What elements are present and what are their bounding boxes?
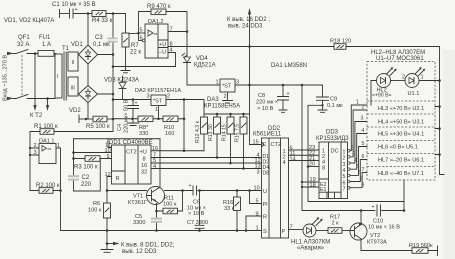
svg-text:15: 15 [253, 140, 259, 146]
svg-text:3: 3 [147, 94, 150, 100]
svg-text:К выв. 8 DD1, DD2;: К выв. 8 DD1, DD2; [121, 243, 175, 249]
svg-text:1: 1 [356, 100, 359, 106]
svg-text:10 мк × 16 В: 10 мк × 16 В [368, 225, 400, 231]
svg-text:*ST: *ST [153, 99, 163, 105]
svg-text:«+90 В»: «+90 В» [372, 93, 392, 99]
svg-text:1: 1 [155, 107, 158, 113]
svg-text:160: 160 [165, 131, 174, 137]
svg-text:10: 10 [254, 186, 260, 192]
svg-text:C2: C2 [82, 175, 90, 181]
svg-text:VD1: VD1 [71, 42, 83, 48]
svg-text:К561ИЕ11: К561ИЕ11 [253, 132, 282, 138]
svg-text:КР1533ИД3: КР1533ИД3 [316, 136, 349, 142]
svg-text:7: 7 [170, 27, 173, 33]
svg-text:2: 2 [167, 94, 170, 100]
svg-text:R18 120: R18 120 [330, 39, 351, 45]
svg-text:T1: T1 [62, 46, 70, 52]
svg-text:1 А: 1 А [42, 42, 51, 48]
svg-text:7: 7 [343, 187, 346, 193]
svg-text:3300: 3300 [133, 220, 145, 226]
svg-text:II: II [72, 60, 75, 66]
svg-text:9: 9 [107, 154, 110, 160]
svg-text:U1.1: U1.1 [408, 91, 420, 97]
svg-text:КТ973А: КТ973А [367, 240, 387, 246]
svg-text:3: 3 [343, 162, 346, 168]
svg-text:4: 4 [362, 128, 365, 134]
svg-text:32 А: 32 А [17, 42, 29, 48]
svg-text:HL4 «+50 В» U3.1: HL4 «+50 В» U3.1 [378, 120, 424, 126]
svg-text:VT1: VT1 [133, 194, 143, 200]
svg-text:VT2: VT2 [370, 233, 380, 239]
svg-text:HL7 «–20 В» U6.1: HL7 «–20 В» U6.1 [378, 158, 424, 164]
svg-text:12: 12 [105, 172, 111, 178]
svg-text:5: 5 [140, 28, 143, 34]
svg-text:220 мк ×: 220 мк × [256, 100, 278, 106]
svg-text:выв. 12 DD3: выв. 12 DD3 [122, 249, 157, 255]
svg-text:2: 2 [34, 143, 37, 149]
svg-text:DA2 КР1157ЕН1А: DA2 КР1157ЕН1А [135, 88, 181, 94]
svg-text:1: 1 [216, 80, 219, 86]
svg-text:+U: +U [159, 42, 166, 48]
svg-text:2 к: 2 к [332, 221, 340, 227]
svg-text:E1: E1 [320, 187, 326, 193]
svg-text:6: 6 [140, 36, 143, 42]
svg-text:5: 5 [343, 174, 346, 180]
svg-text:I: I [57, 74, 58, 80]
svg-text:C9: C9 [330, 97, 337, 103]
svg-text:DD3: DD3 [326, 130, 339, 136]
svg-text:III: III [71, 86, 75, 92]
svg-text:4: 4 [283, 160, 286, 166]
svg-text:КД521А: КД521А [194, 63, 216, 69]
svg-text:HL5 «+30 В» U4.1: HL5 «+30 В» U4.1 [378, 132, 424, 138]
svg-text:R13 30: R13 30 [208, 124, 214, 141]
svg-text:C8: C8 [258, 93, 265, 99]
svg-text:R19 560к: R19 560к [409, 243, 433, 249]
svg-text:0,1 мк: 0,1 мк [93, 42, 110, 48]
svg-text:+U: +U [140, 150, 147, 156]
svg-text:DA3: DA3 [207, 97, 219, 103]
svg-text:+: + [135, 101, 138, 107]
svg-text:R3 100 к: R3 100 к [74, 165, 98, 171]
svg-text:3: 3 [34, 150, 37, 156]
svg-text:C1 10 мк × 35 В: C1 10 мк × 35 В [52, 2, 96, 8]
svg-text:DD1 CD4060BE: DD1 CD4060BE [109, 140, 153, 146]
svg-text:6: 6 [362, 154, 365, 160]
svg-text:VD3 КД243А: VD3 КД243А [104, 78, 139, 84]
svg-text:1: 1 [421, 75, 424, 81]
svg-text:P: P [282, 229, 286, 235]
svg-text:R5 100 к: R5 100 к [86, 124, 110, 130]
svg-text:HL6 «0 В» U5.1: HL6 «0 В» U5.1 [378, 145, 418, 151]
svg-text:220 мк× 50 В: 220 мк× 50 В [124, 99, 130, 133]
svg-text:FU1: FU1 [39, 35, 51, 41]
svg-text:CT2: CT2 [271, 142, 282, 148]
svg-text:100 к: 100 к [88, 208, 102, 214]
svg-text:Pl: Pl [263, 202, 268, 208]
svg-text:2: 2 [224, 94, 227, 100]
svg-text:7: 7 [362, 167, 365, 173]
svg-text:18: 18 [310, 183, 316, 189]
svg-text:× 10 В: × 10 В [188, 211, 205, 217]
svg-text:QF1: QF1 [18, 35, 30, 41]
svg-text:14: 14 [290, 157, 296, 163]
svg-text:4: 4 [153, 164, 156, 170]
svg-text:R12 4,3 к: R12 4,3 к [195, 120, 201, 143]
svg-text:D8: D8 [263, 171, 270, 177]
svg-text:Вход ~135...270 В: Вход ~135...270 В [3, 55, 9, 101]
svg-text:DC: DC [331, 149, 339, 155]
svg-text:HL8 «–40 В» U7.1: HL8 «–40 В» U7.1 [378, 171, 424, 177]
svg-text:VD1, VD2 КЦ407А: VD1, VD2 КЦ407А [4, 18, 54, 24]
svg-text:220: 220 [81, 182, 92, 188]
svg-text:22 к: 22 к [130, 50, 141, 56]
svg-text:2: 2 [402, 75, 405, 81]
svg-text:C3: C3 [95, 35, 103, 41]
svg-text:КТ361Г: КТ361Г [128, 200, 147, 206]
svg-text:∞: ∞ [48, 147, 52, 153]
svg-text:R4 33 к: R4 33 к [92, 18, 113, 24]
svg-text:VD4: VD4 [196, 56, 208, 62]
svg-text:–U: –U [159, 50, 166, 56]
svg-text:S: S [263, 229, 267, 235]
svg-text:8: 8 [143, 157, 146, 163]
svg-text:1: 1 [343, 150, 346, 156]
svg-text:33 к: 33 к [224, 206, 235, 212]
svg-text:«Авария»: «Авария» [297, 246, 325, 252]
svg-text:R: R [116, 176, 120, 182]
svg-text:9: 9 [256, 212, 259, 218]
svg-text:4: 4 [343, 168, 346, 174]
svg-text:HL3 «+70 В» U2.1: HL3 «+70 В» U2.1 [378, 106, 424, 112]
svg-text:16: 16 [141, 163, 147, 169]
svg-text:R15 7,5: R15 7,5 [235, 124, 241, 142]
svg-text:C7 3300: C7 3300 [187, 220, 208, 226]
svg-text:R: R [263, 215, 267, 221]
svg-text:выв. 24 DD3: выв. 24 DD3 [228, 24, 263, 30]
svg-text:+: + [189, 183, 192, 189]
svg-text:6: 6 [343, 180, 346, 186]
svg-text:1: 1 [256, 226, 259, 232]
svg-text:+: + [287, 91, 290, 97]
svg-text:32: 32 [141, 170, 147, 176]
svg-text:C4: C4 [117, 124, 123, 131]
svg-text:DA1.1: DA1.1 [39, 139, 55, 145]
svg-text:U: U [263, 189, 267, 195]
svg-text:*ST: *ST [222, 84, 232, 90]
svg-text:0,1 мк: 0,1 мк [327, 103, 343, 109]
svg-text:2: 2 [362, 105, 365, 111]
svg-text:3: 3 [257, 170, 260, 176]
svg-text:R7: R7 [131, 43, 139, 49]
svg-text:100 к: 100 к [163, 202, 177, 208]
svg-text:330: 330 [139, 131, 148, 137]
svg-text:R9 470 к: R9 470 к [147, 4, 171, 10]
svg-text:DA1 LM358N: DA1 LM358N [271, 63, 307, 69]
svg-text:8: 8 [322, 166, 325, 172]
svg-text:R6: R6 [93, 201, 100, 207]
svg-text:× 10 В: × 10 В [257, 106, 274, 112]
svg-text:К Т2: К Т2 [30, 113, 43, 119]
svg-text:3: 3 [361, 116, 364, 122]
svg-text:R14 15: R14 15 [222, 124, 228, 141]
svg-text:DA1.2: DA1.2 [148, 19, 164, 25]
svg-text:К выв. 16 DD2 ;: К выв. 16 DD2 ; [227, 17, 270, 23]
svg-text:5: 5 [256, 199, 259, 205]
svg-text:VD2: VD2 [69, 108, 81, 114]
svg-text:∞: ∞ [154, 32, 158, 38]
svg-text:+: + [372, 205, 375, 211]
svg-text:2: 2 [343, 156, 346, 162]
svg-text:CT2: CT2 [126, 150, 137, 156]
svg-text:КР1158ЕН5А: КР1158ЕН5А [204, 104, 240, 110]
svg-text:5: 5 [362, 141, 365, 147]
